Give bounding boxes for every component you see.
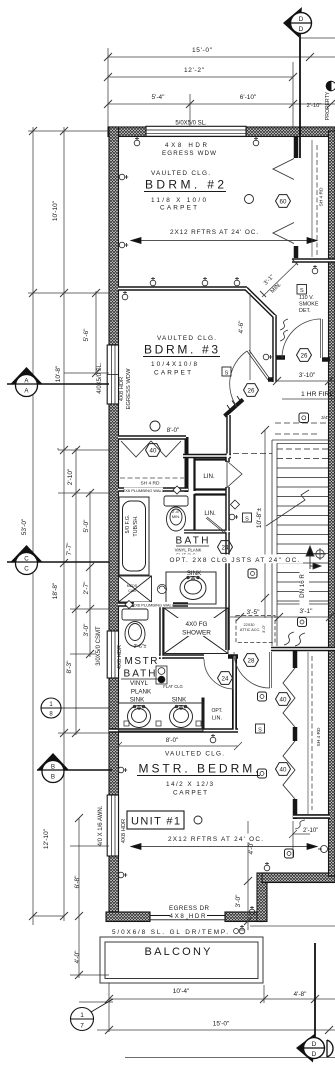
- outlet west wall mstr low: [118, 872, 127, 878]
- svg-text:28: 28: [248, 657, 255, 664]
- svg-text:VINYL: VINYL: [130, 680, 148, 687]
- svg-text:3'-1": 3'-1": [300, 608, 314, 615]
- marker D top: [283, 7, 312, 38]
- mstr vanity with two sinks: [119, 703, 204, 731]
- mstr bath door arc: [204, 659, 233, 689]
- stair treads: [277, 449, 329, 601]
- label 2x6 plumbing wall 1: [123, 488, 165, 494]
- shower bottom / passage wall: [159, 654, 204, 659]
- svg-text:10'-8": 10'-8": [55, 365, 62, 382]
- dim line mstr 4'-0" x248: [244, 821, 252, 930]
- sq outlet stairs bottom: [298, 618, 307, 627]
- svg-text:B: B: [51, 764, 55, 771]
- wic door leaf: [270, 652, 272, 688]
- svg-text:BATH: BATH: [176, 536, 209, 547]
- stairs outline: [272, 440, 330, 646]
- interior wall bdrm2/bdrm3: [118, 286, 247, 291]
- toilet 2 (mstr): [122, 609, 148, 647]
- outlet west wall bdrm2 b: [119, 242, 128, 248]
- svg-text:2'-6"±: 2'-6"±: [134, 644, 147, 650]
- svg-text:10'-8"±: 10'-8"±: [256, 508, 263, 529]
- window 3/0x5/0 casement in west wall (mstr bath): [107, 631, 118, 678]
- svg-text:1 HR FIRE WALL: 1 HR FIRE WALL: [301, 391, 335, 398]
- outlet below wall bdrm3: [122, 291, 128, 300]
- toilet 1 (bath): [164, 496, 188, 531]
- attic access dashed box: [236, 616, 275, 643]
- svg-text:26: 26: [248, 387, 255, 394]
- svg-text:10'-4": 10'-4": [173, 988, 190, 995]
- outlet mstr north wall: [210, 734, 216, 743]
- svg-text:2X12 RFTRS AT 24' OC.: 2X12 RFTRS AT 24' OC.: [170, 229, 258, 236]
- outlet angled wall: [263, 354, 272, 360]
- svg-text:5'-0": 5'-0": [83, 519, 90, 533]
- marker D bottom: [296, 1034, 333, 1063]
- hexagon keynote 40: [276, 763, 291, 776]
- interior angled wall bdrm3 NE corner: [246, 289, 275, 318]
- meds cab: [119, 576, 152, 602]
- svg-text:40: 40: [280, 696, 287, 703]
- ceiling light bdrm2: [245, 195, 254, 204]
- dim line 1hr fire wall leader: [282, 398, 335, 400]
- squiggle near 2'-10 wic: [295, 820, 305, 829]
- faucet squares between sinks: [124, 721, 201, 726]
- bottom dim line 15'-0": [97, 1026, 335, 1034]
- opt lin west wall: [202, 698, 205, 732]
- svg-text:22X30: 22X30: [244, 623, 255, 627]
- linen closet 2 walls: [195, 494, 227, 533]
- svg-text:6'-10": 6'-10": [240, 94, 257, 101]
- left dim line x64: [63, 127, 65, 921]
- svg-text:SINK: SINK: [187, 570, 202, 577]
- svg-text:60: 60: [280, 198, 287, 205]
- white mask dn16r: [300, 567, 310, 606]
- svg-text:5/0 F.G.: 5/0 F.G.: [125, 515, 131, 534]
- svg-text:PLANK: PLANK: [131, 689, 152, 696]
- bottom dim line 10'-4"/4'-8": [105, 995, 335, 1003]
- rafter arrow mstr: [131, 844, 328, 853]
- svg-text:BDRM. #3: BDRM. #3: [144, 343, 218, 357]
- opt clg joists note: [167, 555, 303, 565]
- left dim line x96: [95, 291, 97, 375]
- svg-text:S: S: [300, 288, 304, 294]
- svg-text:10'-10": 10'-10": [52, 200, 59, 221]
- svg-text:MIN.: MIN.: [172, 514, 180, 519]
- stair headroom dashed: [233, 423, 330, 454]
- svg-text:2'-10": 2'-10": [307, 103, 322, 109]
- switch S bdrm3: [222, 367, 231, 376]
- svg-text:8'-0": 8'-0": [167, 427, 180, 434]
- plumbing wall bath north (2x6): [118, 487, 188, 492]
- top dim extender lines: [108, 48, 293, 127]
- bottom dim extenders: [79, 983, 264, 1032]
- exterior wall south-east vertical step: [257, 873, 267, 922]
- hexagon keynote 24: [218, 672, 233, 685]
- outlet west wall bdrm2 a: [119, 174, 128, 180]
- svg-text:5/0X6/8 SL. GL DR/TEMP.: 5/0X6/8 SL. GL DR/TEMP.: [112, 929, 228, 936]
- dim line 3'-1" min diagonal: [262, 262, 298, 297]
- window 4/0x5/0 slider in west wall (bdrm3): [107, 345, 118, 404]
- unit #1 box: [127, 811, 184, 829]
- stair crosshair symbol: [314, 548, 326, 560]
- svg-text:4/0X5/0 SL.: 4/0X5/0 SL.: [97, 362, 103, 394]
- svg-text:SH 4 RD: SH 4 RD: [316, 727, 322, 746]
- left dim ticks: [29, 127, 100, 979]
- exterior wall bottom (south, right block): [225, 912, 262, 922]
- svg-text:SINK: SINK: [172, 697, 187, 704]
- label 2x6 plumbing wall 2: [133, 602, 175, 608]
- linen 1 door triangle: [227, 461, 242, 488]
- wic bifold zigzag: [283, 668, 295, 799]
- svg-text:3'-0": 3'-0": [83, 623, 90, 637]
- dim line wic 2'-10": [289, 821, 310, 858]
- survey symbol top right: [326, 81, 335, 91]
- sink 1 vanity: [166, 572, 216, 604]
- outlet bath hall: [229, 514, 238, 520]
- linen closet 1 walls: [195, 458, 227, 491]
- svg-text:D: D: [299, 26, 304, 33]
- svg-text:FLAT CLG: FLAT CLG: [163, 684, 183, 689]
- outlet smoke hall top: [312, 265, 318, 274]
- tiny circle note slider: [234, 929, 245, 934]
- bath north wall (linen south): [184, 530, 230, 534]
- svg-text:MEDS: MEDS: [127, 584, 138, 588]
- hall door arc (top of stairs): [282, 319, 321, 358]
- diamond vent on plumbing wall 1: [173, 486, 181, 494]
- svg-text:26: 26: [301, 352, 308, 359]
- interior wall bdrm3 east upper: [268, 315, 275, 382]
- svg-text:6'-8": 6'-8": [74, 875, 81, 889]
- svg-text:4X8 HDR: 4X8 HDR: [117, 645, 123, 669]
- dim line right 3'-10": [273, 377, 335, 385]
- svg-text:TUB/SH.: TUB/SH.: [133, 515, 139, 536]
- svg-text:2'-10": 2'-10": [67, 468, 74, 485]
- svg-text:3'-10": 3'-10": [299, 372, 316, 379]
- svg-text:D: D: [299, 16, 304, 23]
- sq outlet wic 2: [258, 769, 267, 778]
- window 4/0x1/6 awning in west wall (mstr bedrm): [107, 795, 118, 856]
- svg-text:SH 4 RD: SH 4 RD: [141, 481, 160, 487]
- rafter arrow bdrm2: [131, 238, 317, 244]
- svg-text:CAB: CAB: [128, 589, 136, 593]
- svg-text:3/4": 3/4": [321, 415, 329, 420]
- outlet south wall left of step: [249, 906, 255, 915]
- svg-text:5'-4": 5'-4": [152, 94, 166, 101]
- hexagon keynote 26: [297, 349, 312, 362]
- svg-text:OPT.: OPT.: [211, 708, 222, 714]
- top dim line 15'-0": [104, 53, 335, 61]
- svg-text:15'-0": 15'-0": [213, 1021, 230, 1028]
- bdrm3 closet east wall: [185, 437, 189, 492]
- bottom dim line lower: [125, 1057, 335, 1059]
- wic front wall stub bottom: [293, 799, 330, 819]
- shower 4/0 fg: [164, 608, 228, 654]
- outlet top wall 2: [253, 137, 259, 146]
- fan symbol bath: [157, 584, 166, 593]
- svg-text:4/0 X 1/6 AWN.: 4/0 X 1/6 AWN.: [98, 805, 104, 846]
- bdrm3 closet bifold W: [121, 441, 181, 457]
- insulation squiggle bdrm3 wall: [280, 319, 288, 341]
- svg-text:8'-3": 8'-3": [66, 660, 73, 674]
- bdrm3 closet top wall: [118, 435, 186, 440]
- outlet balcony: [239, 925, 245, 934]
- bdrm3 door arc: [230, 351, 247, 407]
- svg-text:53'-0": 53'-0": [21, 518, 28, 535]
- switch S smoke hall: [297, 285, 307, 295]
- sliding glass door 5/0x6/8 in south wall: [150, 914, 225, 922]
- svg-text:3'-5": 3'-5": [247, 609, 261, 616]
- hall top wall over linen closets: [183, 454, 231, 459]
- sq outlet stairs top: [299, 413, 309, 423]
- svg-text:LIN.: LIN.: [212, 716, 223, 722]
- bdrm3 door leaf: [247, 350, 270, 380]
- wic shelf lines: [307, 652, 309, 814]
- svg-text:EGRESS WDW: EGRESS WDW: [126, 368, 132, 409]
- svg-text:S: S: [258, 727, 262, 733]
- outlet bdrm23 wall 2: [202, 277, 208, 286]
- wic north wall: [271, 647, 335, 652]
- plumbing wall bath/mstr bath (2x6): [118, 602, 188, 607]
- svg-text:DET.: DET.: [299, 308, 311, 314]
- bdrm2 closet stub bottom / closet south wall: [292, 246, 335, 261]
- detail marker 1/8: [41, 698, 109, 718]
- svg-text:4X8 HDR: 4X8 HDR: [119, 377, 125, 401]
- svg-text:11/8 X 10/0: 11/8 X 10/0: [151, 197, 206, 204]
- sq outlet mstr: [285, 849, 294, 858]
- svg-text:SHOWER: SHOWER: [182, 630, 211, 637]
- svg-text:D: D: [312, 1051, 317, 1058]
- svg-text:18'-8": 18'-8": [52, 582, 59, 599]
- diamond outlet 220 bath hall: [231, 500, 240, 509]
- left dim extender x33 (53'-0" line): [32, 127, 34, 925]
- outlet top wall 1: [134, 137, 140, 146]
- wic door arc: [234, 652, 270, 688]
- mstr bedrm north wall: [109, 728, 238, 733]
- hexagon keynote 60: [276, 195, 291, 208]
- svg-text:4'-8": 4'-8": [294, 991, 308, 998]
- section marker A: [7, 367, 109, 397]
- svg-text:EGRESS DR: EGRESS DR: [169, 905, 210, 912]
- svg-text:14/2 X 12/3: 14/2 X 12/3: [166, 781, 213, 788]
- wic front wall stub top: [293, 649, 298, 668]
- svg-text:24: 24: [222, 544, 229, 551]
- svg-text:SINK: SINK: [130, 697, 145, 704]
- outlet bdrm23 wall 1: [150, 277, 156, 286]
- svg-text:4X0 FG: 4X0 FG: [185, 621, 207, 628]
- left dim line x79 lower: [78, 818, 80, 978]
- svg-text:24: 24: [222, 675, 229, 682]
- svg-text:1: 1: [80, 1012, 84, 1019]
- interior angled wall stub bdrm3 SE: [225, 396, 244, 416]
- svg-text:40: 40: [150, 447, 157, 454]
- exterior wall south-east horizontal: [262, 873, 335, 883]
- svg-text:SH 4 RD: SH 4 RD: [319, 187, 325, 206]
- exterior wall bottom (south, left block): [106, 912, 150, 922]
- switch S bath hall: [243, 513, 252, 522]
- svg-text:110 V.: 110 V.: [299, 295, 314, 301]
- hexagon keynote 28: [244, 654, 259, 667]
- svg-text:3'-0": 3'-0": [261, 624, 266, 633]
- light/fan combo box mstr bath: [156, 666, 167, 684]
- svg-text:8'-0": 8'-0": [166, 737, 179, 744]
- svg-text:5'-6": 5'-6": [83, 328, 90, 342]
- svg-text:PROPERTY: PROPERTY: [325, 91, 331, 120]
- svg-text:2'-10": 2'-10": [303, 828, 318, 834]
- hexagon keynote 40: [146, 444, 161, 457]
- svg-text:C: C: [24, 566, 29, 573]
- outlet se wall top: [264, 862, 270, 871]
- svg-text:S: S: [245, 516, 249, 522]
- svg-text:VAULTED CLG.: VAULTED CLG.: [151, 170, 210, 177]
- svg-text:C: C: [24, 556, 29, 563]
- interior wall bdrm3 east lower: [226, 415, 231, 458]
- bdrm2 closet stub top: [294, 136, 299, 158]
- sq outlet wic 1: [258, 692, 267, 701]
- diamond vent plumbing wall 2: [125, 601, 133, 609]
- svg-text:10/4X10/8: 10/4X10/8: [151, 361, 197, 368]
- svg-text:VAULTED CLG.: VAULTED CLG.: [165, 751, 224, 758]
- balcony top line to east: [250, 925, 335, 927]
- svg-text:4X8 HDR: 4X8 HDR: [121, 819, 127, 843]
- property line bottom (thick): [314, 943, 316, 1037]
- svg-text:2X6 PLUMBING WALL: 2X6 PLUMBING WALL: [133, 603, 175, 608]
- balcony rect outer: [100, 937, 263, 983]
- window 5/0x5/0 slider in north wall: [146, 126, 246, 136]
- svg-text:3'-0": 3'-0": [235, 894, 242, 908]
- wall stub right of mstr bath door: [228, 654, 238, 659]
- svg-text:5/0X5/0 SL.: 5/0X5/0 SL.: [175, 121, 207, 127]
- svg-text:3/0X5/0 CSMT: 3/0X5/0 CSMT: [96, 626, 102, 666]
- label sh 4 rd bdrm3 closet: [138, 479, 162, 487]
- svg-text:4'-6": 4'-6": [238, 320, 245, 334]
- svg-text:ATTIC ACC.: ATTIC ACC.: [240, 628, 261, 632]
- detail marker 1/7: [71, 999, 114, 1031]
- wall stub smoke hall T: [276, 355, 285, 360]
- left dim horizontal connectors: [28, 131, 109, 975]
- wic south wall: [293, 814, 330, 819]
- svg-text:LIN.: LIN.: [204, 510, 216, 517]
- bdrm2 closet shelf line: [311, 140, 313, 257]
- party wall 1-hr (east edge): [329, 131, 335, 876]
- bathtub 5/0 fg: [119, 497, 149, 575]
- svg-text:2X6 PLUMBING WALL: 2X6 PLUMBING WALL: [123, 488, 165, 493]
- top dim line 5'-4"/6'-10"/2'-10": [104, 100, 335, 108]
- stair direction arrow: [306, 546, 321, 569]
- svg-text:12'-2": 12'-2": [184, 67, 205, 74]
- exterior wall top (north): [108, 127, 335, 137]
- svg-text:12'-10": 12'-10": [43, 828, 50, 849]
- svg-text:15'-0": 15'-0": [192, 47, 213, 54]
- svg-text:MSTR: MSTR: [125, 656, 158, 667]
- hexagon keynote 26: [244, 384, 259, 397]
- svg-text:SMOKE: SMOKE: [299, 302, 319, 308]
- section marker C: [7, 545, 109, 575]
- svg-text:7: 7: [80, 1023, 84, 1030]
- bdrm2 closet bifold doors: [273, 159, 294, 244]
- svg-text:4'-0": 4'-0": [74, 950, 81, 964]
- svg-text:BATH: BATH: [124, 669, 156, 680]
- top dim line 12'-2": [104, 73, 297, 81]
- svg-text:DN 16 R: DN 16 R: [299, 574, 306, 598]
- sq outlet hall: [248, 569, 257, 578]
- svg-text:2'-7": 2'-7": [83, 581, 90, 595]
- svg-text:40: 40: [280, 766, 287, 773]
- svg-text:S: S: [225, 370, 229, 376]
- insulation squiggles wic top: [284, 632, 305, 646]
- ceiling light mstr: [194, 816, 202, 824]
- svg-text:D: D: [312, 1041, 317, 1048]
- svg-text:BDRM. #2: BDRM. #2: [145, 178, 224, 192]
- dim line bath 8'-0" below vanity wall: [114, 742, 242, 750]
- dim line hall 10'-8 x265: [261, 426, 269, 618]
- hexagon keynote 40: [276, 693, 291, 706]
- wall jamb stub at party wall hall door: [322, 357, 330, 362]
- bdrm3 closet shelf dashed: [120, 477, 184, 479]
- rafter note mstr: [166, 834, 267, 844]
- switch S wic: [256, 724, 265, 733]
- svg-text:B: B: [51, 774, 55, 781]
- section marker B: [37, 753, 112, 783]
- dim line 4'-6" vertical: [249, 293, 251, 380]
- outlet west wall B line: [118, 767, 127, 773]
- shower west wall: [159, 604, 164, 659]
- svg-text:VAULTED CLG.: VAULTED CLG.: [157, 335, 216, 342]
- svg-text:7'-7": 7'-7": [66, 542, 73, 556]
- left dim line x76: [75, 448, 77, 735]
- svg-text:2X12 RFTRS AT 24' OC.: 2X12 RFTRS AT 24' OC.: [168, 836, 263, 843]
- svg-text:EGRESS WDW: EGRESS WDW: [162, 150, 216, 157]
- stair up line with break: [266, 490, 309, 526]
- outlet bdrm23 wall 3: [234, 277, 240, 286]
- left dim line x90: [89, 491, 91, 657]
- top stub dim line right: [300, 37, 335, 39]
- bath east wall along linen closets: [225, 454, 230, 651]
- wic front wall stub middle: [293, 727, 298, 741]
- hexagon keynote 24: [218, 541, 233, 554]
- property line top (thick): [299, 34, 301, 158]
- opt lin east / wic west wall: [232, 656, 237, 731]
- svg-text:LIN.: LIN.: [203, 473, 215, 480]
- exterior wall left (west): [109, 127, 119, 921]
- egress dr note: [169, 905, 210, 920]
- dim line stairs 3'-5"/3'-1" y617: [230, 613, 334, 621]
- linen 2 door diagonal: [206, 517, 226, 534]
- ceiling light bdrm3: [150, 421, 160, 431]
